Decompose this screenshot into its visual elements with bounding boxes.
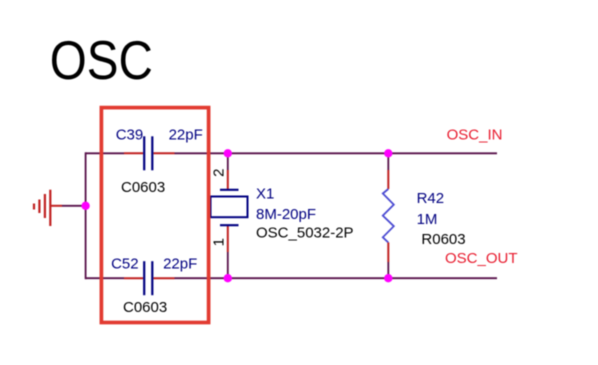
- pin 2 lead of C39: [154, 152, 175, 154]
- svg-text:OSC_5032-2P: OSC_5032-2P: [256, 225, 354, 242]
- junction dot OSC_IN at resistor: [384, 149, 392, 157]
- wire bottom net OSC_OUT right segment: [175, 277, 498, 279]
- C52 right plate: [151, 261, 153, 295]
- R42 zigzag body: [383, 189, 394, 243]
- wire ground stub: [62, 205, 86, 207]
- svg-text:2: 2: [211, 169, 228, 177]
- R42 top pin lead: [387, 170, 389, 189]
- svg-text:C39: C39: [116, 127, 144, 144]
- capacitor C52: [111, 256, 197, 316]
- X1 bottom electrode plate: [220, 224, 239, 226]
- svg-text:1M: 1M: [417, 211, 438, 228]
- resistor R42: [383, 153, 466, 278]
- title OSC: [50, 29, 153, 91]
- junction dot ground node: [81, 202, 89, 210]
- pin 1 lead of C52: [124, 277, 143, 279]
- C39 left plate: [143, 136, 145, 170]
- svg-text:OSC: OSC: [50, 29, 153, 91]
- wire to X1 pin 2: [227, 153, 229, 170]
- junction dot OSC_OUT at resistor: [384, 274, 392, 282]
- svg-text:22pF: 22pF: [169, 127, 203, 144]
- crystal X1: [211, 153, 354, 278]
- junction dot OSC_OUT at crystal: [224, 274, 232, 282]
- C39 right plate: [151, 136, 153, 170]
- X1 crystal body: [211, 197, 248, 218]
- pin 1 lead of C39: [124, 152, 143, 154]
- C52 left plate: [143, 261, 145, 295]
- svg-text:C52: C52: [111, 256, 139, 273]
- svg-text:8M-20pF: 8M-20pF: [256, 206, 316, 223]
- svg-text:X1: X1: [256, 186, 274, 203]
- ground bar 2: [44, 194, 46, 218]
- svg-text:R0603: R0603: [421, 231, 465, 248]
- svg-text:1: 1: [211, 238, 228, 246]
- ground bar 3: [38, 200, 40, 214]
- svg-text:R42: R42: [417, 190, 445, 207]
- ground bar 4: [33, 204, 35, 210]
- capacitor C39: [116, 127, 203, 197]
- wire from R42 bottom: [387, 262, 389, 278]
- highlight rectangle (red): [101, 108, 208, 323]
- ground pin lead: [51, 205, 62, 207]
- X1 pin 2 lead: [227, 170, 229, 189]
- wire left vertical: [85, 152, 87, 279]
- svg-text:C0603: C0603: [121, 179, 165, 196]
- X1 top electrode plate: [220, 189, 239, 191]
- pin 2 lead of C52: [154, 277, 175, 279]
- X1 pin 1 lead: [227, 226, 229, 252]
- junction dot OSC_IN at crystal: [224, 149, 232, 157]
- wire top net OSC_IN right segment: [175, 152, 498, 154]
- svg-text:OSC_OUT: OSC_OUT: [445, 250, 518, 267]
- wire bottom net OSC_OUT left segment: [86, 277, 124, 279]
- ground bar 1: [49, 190, 51, 226]
- svg-text:C0603: C0603: [123, 299, 167, 316]
- wire from X1 pin 1: [227, 252, 229, 278]
- wire to R42 top: [387, 153, 389, 170]
- wire top net OSC_IN left segment: [86, 152, 124, 154]
- ground: [34, 190, 62, 226]
- svg-text:OSC_IN: OSC_IN: [447, 126, 503, 143]
- R42 bottom pin lead: [387, 243, 389, 263]
- svg-text:22pF: 22pF: [163, 256, 197, 273]
